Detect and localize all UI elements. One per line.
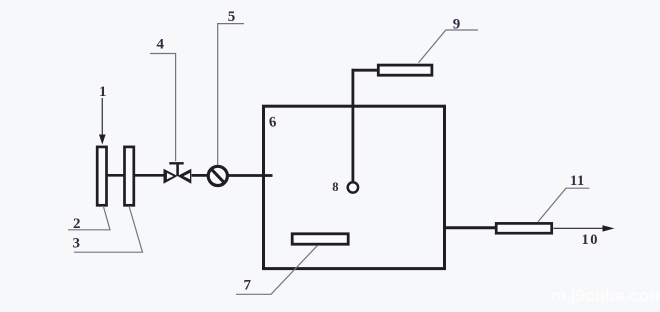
wire probe elbow xyxy=(352,69,379,72)
heater rect 7 xyxy=(292,234,348,244)
leader line 9 xyxy=(419,30,479,63)
svg-text:1: 1 xyxy=(99,84,107,100)
wire column3 to valve xyxy=(134,174,167,177)
leader line 5 xyxy=(217,23,244,25)
svg-text:2: 2 xyxy=(73,216,81,232)
flow meter 5 xyxy=(208,166,227,185)
leader line 4 xyxy=(150,54,176,162)
valve 4 xyxy=(164,163,192,183)
wire meter into chamber xyxy=(227,174,273,177)
leader line 3 xyxy=(74,206,143,252)
svg-text:4: 4 xyxy=(157,37,165,53)
filter column 3 xyxy=(125,147,134,205)
svg-text:9: 9 xyxy=(453,17,461,33)
leader line 7 xyxy=(236,245,318,294)
sensor rect 9 xyxy=(378,65,432,75)
svg-text:3: 3 xyxy=(73,236,81,252)
wire between columns xyxy=(106,174,125,177)
outlet arrowhead 10 xyxy=(603,225,615,231)
svg-text:8: 8 xyxy=(332,180,338,194)
svg-text:m.j9cuba.com: m.j9cuba.com xyxy=(551,286,660,305)
electrode ball 8 xyxy=(348,182,358,192)
svg-text:7: 7 xyxy=(244,278,252,294)
wire chamber to element 11 xyxy=(445,226,496,229)
wire probe vertical xyxy=(351,69,354,182)
arrow into filter (inlet) xyxy=(99,98,106,145)
wire valve to meter xyxy=(192,174,208,177)
svg-text:11: 11 xyxy=(570,173,585,189)
outlet wire xyxy=(554,227,606,229)
chamber box 6 xyxy=(264,106,445,268)
leader line 11 xyxy=(538,188,590,222)
leader line 2 xyxy=(68,206,110,230)
filter column 2 xyxy=(97,147,106,205)
outlet element 11 xyxy=(496,223,552,233)
svg-text:5: 5 xyxy=(228,9,236,25)
svg-text:10: 10 xyxy=(582,232,600,248)
